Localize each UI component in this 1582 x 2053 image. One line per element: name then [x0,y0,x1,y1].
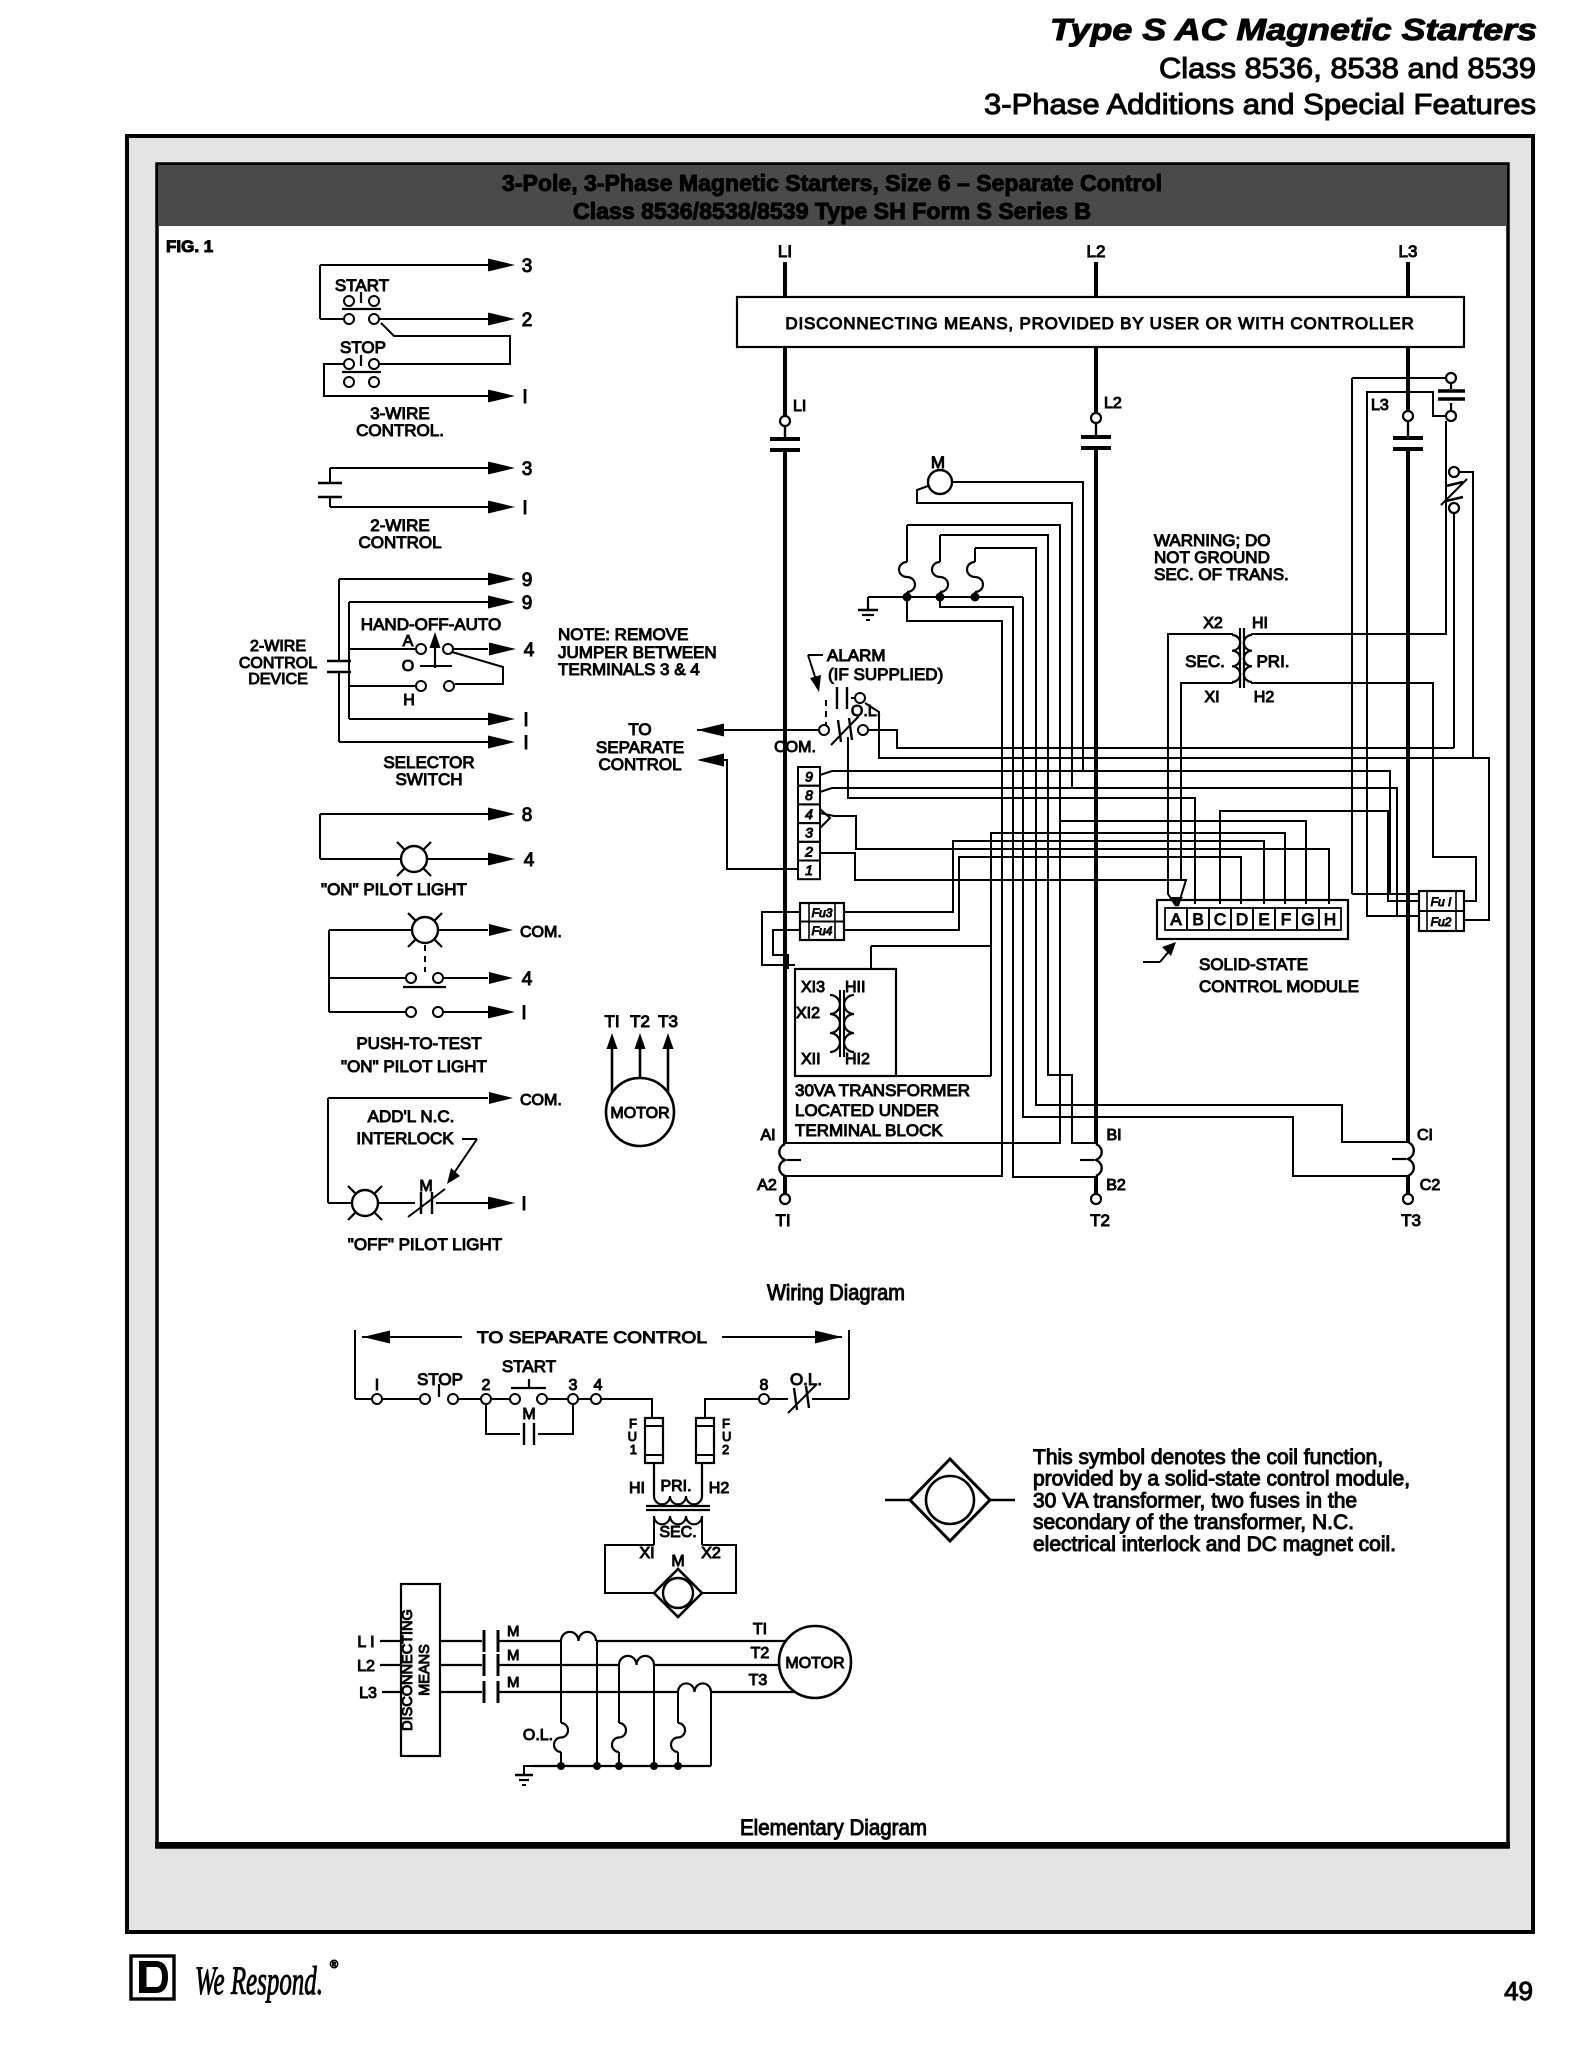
Square D logo [131,1956,174,1999]
wire M coil left lead to terminal 8 [832,486,1072,788]
wire L1 top [783,262,787,297]
svg-text:B: B [1192,910,1203,929]
overload heater leg 1b [596,1641,598,1766]
terminal L1 [780,416,790,426]
svg-text:O.L.: O.L. [523,1727,553,1744]
svg-text:HI: HI [1252,615,1268,632]
selector outer-left bus wire with 2-wire device contact [338,579,340,661]
svg-text:LOCATED UNDER: LOCATED UNDER [795,1101,939,1120]
alarm dashed actuator link [825,700,827,727]
svg-text:9: 9 [805,769,813,785]
ground symbol elementary [524,1766,533,1775]
svg-text:provided by a solid-state cont: provided by a solid-state control module… [1033,1468,1410,1491]
svg-text:HII: HII [845,979,865,996]
svg-text:TO: TO [628,720,651,739]
wire Fu3 left loop to transformer [762,912,800,965]
svg-text:1: 1 [805,862,813,878]
svg-text:DISCONNECTING: DISCONNECTING [400,1609,416,1731]
auxiliary contact near L3 (upper) [1446,373,1456,383]
terminal 2 [798,842,820,861]
wire upper contact bottom via 1367 down to Fu2 [1367,392,1446,916]
terminal 4 [798,804,820,823]
wire Fu3 right to module E [844,841,1264,912]
terminal 1 [372,1394,382,1404]
wire: left vertical [319,814,321,859]
START pushbutton [510,1394,520,1404]
elementary transformer primary coil [654,1496,702,1504]
svg-text:G: G [1301,910,1314,929]
svg-text:H2: H2 [709,1480,730,1497]
selector wire to terminal 1 (inner) [349,718,488,720]
separable connector L2 [1081,435,1111,439]
elementary control rung [355,1398,419,1400]
svg-text:L3: L3 [359,1685,377,1702]
N.C. interlock contact M [378,1202,415,1204]
wire H2 to Fu1 right [1252,682,1476,901]
elementary transformer core [646,1505,710,1507]
overload common bus [533,1765,711,1767]
STOP lower terminals row [344,377,354,387]
svg-text:TERMINALS 3 & 4: TERMINALS 3 & 4 [558,660,700,679]
svg-text:4: 4 [594,1377,603,1394]
overload heater leg 2a with OL contact [618,1665,620,1723]
solid-state module leader arrow [1143,961,1160,963]
selector: inner wire to terminal 9 [349,601,488,603]
svg-text:F: F [1281,910,1291,929]
module terminal D [1231,908,1253,930]
svg-text:Elementary Diagram: Elementary Diagram [740,1815,927,1840]
O.L. contact elementary [769,1398,788,1400]
inner white panel [157,164,1508,1847]
terminal L3 [1403,411,1413,421]
svg-text:electrical interlock and DC ma: electrical interlock and DC magnet coil. [1033,1533,1396,1556]
svg-text:M: M [507,1647,520,1664]
selector handle arrow [434,646,436,668]
terminal 8 [798,786,820,805]
pilot light ON [320,858,401,860]
svg-text:XI: XI [1204,689,1219,706]
wire net 8 extension to Fu2 left [1072,788,1397,916]
svg-text:L3: L3 [1371,397,1389,414]
wire heater3 top to pole C1 [975,548,1408,1142]
svg-text:TI: TI [753,1621,767,1638]
svg-text:ADD'L N.C.: ADD'L N.C. [368,1107,455,1126]
svg-text:4: 4 [522,969,533,990]
svg-text:I: I [521,1003,526,1024]
svg-text:PRI.: PRI. [1256,652,1289,671]
START lower terminals row [320,318,344,320]
svg-text:NOTE: REMOVE: NOTE: REMOVE [558,625,688,644]
M seal-in contact branch [486,1404,520,1434]
ptt dashed link [424,945,426,972]
wire L3 phase down to pole C [1406,449,1410,1142]
wire to COM terminal [438,929,488,931]
wire from STOP to terminal 1 [324,364,488,396]
module terminal E [1253,908,1275,930]
svg-text:L2: L2 [1087,242,1106,261]
terminal L2 [1091,413,1101,423]
3-wire control: wire to terminal 3 [320,264,488,266]
phase L2 line with M contact and heater to motor T2 [440,1664,482,1666]
svg-text:"ON" PILOT LIGHT: "ON" PILOT LIGHT [321,880,467,899]
terminal 9 [798,767,820,786]
svg-text:3-Phase Additions and Special: 3-Phase Additions and Special Features [984,89,1536,121]
svg-text:MEANS: MEANS [417,1644,433,1696]
svg-text:D: D [1236,910,1248,929]
contactor pole A [779,1144,785,1176]
svg-text:"ON" PILOT LIGHT: "ON" PILOT LIGHT [341,1057,487,1076]
svg-text:STOP: STOP [340,338,386,357]
wire 4 to fuse FU1 [601,1399,652,1418]
terminal 8 [759,1394,769,1404]
separable connector L3 [1393,436,1423,440]
DC magnet coil M (diamond symbol) [654,1569,702,1617]
svg-text:2-WIRE: 2-WIRE [250,638,306,655]
junction dots on overload bus [557,1762,565,1770]
wire Fu4 right to module D [844,857,1241,930]
dark title bar [158,165,1507,226]
fuse block Fu1/Fu2 [1419,891,1464,931]
svg-text:M: M [507,1674,520,1691]
overload heater 3 [974,548,976,562]
motor M1 [606,1078,674,1146]
svg-text:Fu4: Fu4 [812,924,833,938]
elementary transformer secondary coil [654,1516,702,1524]
svg-text:I: I [375,1377,379,1394]
svg-text:CI: CI [1417,1127,1433,1144]
svg-text:Wiring Diagram: Wiring Diagram [767,1280,905,1305]
svg-text:T3: T3 [1401,1211,1421,1230]
svg-text:L I: L I [357,1634,374,1651]
wire terminal 2 to net 880 (module A) [820,853,1186,906]
svg-text:CONTROL.: CONTROL. [356,421,444,440]
svg-text:I: I [522,387,527,408]
separable connector L1 [770,437,800,441]
svg-text:E: E [1258,910,1269,929]
module terminal C [1209,908,1231,930]
svg-text:ALARM: ALARM [827,646,886,665]
svg-text:2: 2 [722,1442,729,1457]
svg-text:4: 4 [524,640,535,661]
fuse FU1 [645,1418,663,1463]
svg-text:COM.: COM. [520,924,562,941]
wire L3 to terminal [1406,347,1410,411]
wire heater1 top to pole A1 [785,525,1060,1143]
svg-text:CONTROL: CONTROL [598,755,681,774]
svg-text:"OFF" PILOT LIGHT: "OFF" PILOT LIGHT [348,1235,502,1254]
svg-text:L3: L3 [1399,242,1418,261]
pilot light OFF [328,1202,352,1204]
svg-text:Class 8536, 8538 and 8539: Class 8536, 8538 and 8539 [1159,53,1536,85]
svg-text:Fu I: Fu I [1431,895,1452,909]
wire start to 3 [491,1398,510,1400]
jumper between terminals 3 and 4 [820,809,830,828]
transformer secondary coil SEC [1232,635,1240,682]
svg-text:49: 49 [1504,1976,1533,2006]
wire Fu4 left loop to transformer [773,930,800,969]
svg-text:TERMINAL BLOCK: TERMINAL BLOCK [795,1121,943,1140]
wire net 9 extension to Fu1 left [1083,771,1390,894]
wire heater3 bottom to pole C2 [974,592,976,597]
svg-text:T2: T2 [630,1012,650,1031]
svg-text:MOTOR: MOTOR [785,1655,844,1672]
svg-text:LI: LI [778,242,792,261]
ptt left bus wire [328,930,330,1012]
svg-text:8: 8 [522,805,533,826]
wire module C to Fu1-left net via 1388 [1220,811,1419,904]
30VA transformer bottom-right wire [896,1075,991,1077]
svg-text:XI2: XI2 [796,1005,820,1022]
svg-text:3: 3 [805,825,813,841]
svg-text:TI: TI [775,1211,790,1230]
selector wire to terminal 1 (outer) [339,741,488,743]
wire X2 to module A [1168,634,1232,906]
wire heater2 bottom to pole B2 [940,592,1096,1177]
wire: seal branch from start to stop [379,323,510,364]
wire terminal 4 to module H [820,813,1329,904]
selector moving contact diagonal to row H [452,652,503,684]
motor lead terminal T3 [1406,1176,1410,1194]
junction dots on ground bus [903,593,912,602]
30VA transformer enclosure [795,969,896,1076]
svg-text:T3: T3 [749,1672,768,1689]
svg-text:DEVICE: DEVICE [248,671,308,688]
svg-text:Class 8536/8538/8539 Type SH F: Class 8536/8538/8539 Type SH Form S Seri… [573,198,1091,224]
30VA transformer secondary coil [830,995,840,1052]
svg-text:INTERLOCK: INTERLOCK [356,1129,454,1148]
svg-text:I: I [523,733,528,754]
ptt contact row 4 [329,977,405,979]
svg-text:1: 1 [630,1442,637,1457]
page outer border frame [127,136,1533,1932]
wire L1 to terminal [783,347,787,416]
alarm contact (if supplied) [836,687,838,709]
contactor coil M [928,470,952,494]
svg-text:2: 2 [804,843,813,859]
wire module B to contact cluster [848,737,1195,904]
wire L1 phase down to pole A [783,450,787,1144]
wire: left vertical of start branch [319,265,321,319]
wire to terminal 2 [379,318,488,320]
off-pilot: wire to COM terminal [328,1097,488,1099]
overload heater leg 3a with OL contact [677,1692,679,1723]
svg-text:XII: XII [801,1051,821,1068]
svg-text:PRI.: PRI. [660,1478,691,1495]
wire heater1 bottom to pole A2 [785,592,1002,1176]
wire FU1 to primary H1 [653,1463,655,1489]
motor lead arrows [611,1046,614,1096]
wire module G to net 1060 [1060,821,1306,904]
selector contact row H [349,685,415,687]
STOP pushbutton [420,1394,430,1404]
selector switch: outer wire to terminal 9 [339,578,488,580]
wire upper contact top to vertical 1352 [1352,377,1446,379]
svg-text:A2: A2 [757,1177,777,1194]
svg-text:TO SEPARATE CONTROL: TO SEPARATE CONTROL [477,1328,707,1347]
svg-text:O: O [402,658,414,675]
2-wire contact symbol [329,468,331,483]
svg-text:COM.: COM. [774,739,816,756]
svg-text:T3: T3 [658,1012,678,1031]
svg-text:CONTROL: CONTROL [358,533,441,552]
2-wire control: wire to terminal 3 [330,467,488,469]
svg-text:®: ® [330,1959,338,1971]
svg-text:4: 4 [524,850,535,871]
svg-text:A: A [1170,910,1182,929]
fuse FU2 [696,1418,714,1463]
wire stop to 2 [458,1398,481,1400]
wire heater2 top to pole B1 [940,535,1096,1143]
overload heater 1 [906,525,908,562]
terminal 2 [481,1394,491,1404]
svg-text:SOLID-STATE: SOLID-STATE [1199,955,1308,974]
off-pilot left bus wire [327,1098,329,1203]
phase L1 line with M contact and heater to motor T1 [440,1640,482,1642]
O.L. contact [819,725,829,735]
svg-text:HI2: HI2 [845,1051,870,1068]
module terminal H [1319,908,1341,930]
wire M coil right lead to terminal 9 [832,482,1083,771]
svg-text:PUSH-TO-TEST: PUSH-TO-TEST [356,1034,481,1053]
svg-text:H: H [403,692,415,709]
svg-text:8: 8 [805,787,813,803]
svg-text:DISCONNECTING MEANS, PROVIDED: DISCONNECTING MEANS, PROVIDED BY USER OR… [785,314,1414,333]
motor M2 (elementary) [779,1626,851,1698]
right boundary wire [848,1330,850,1399]
transformer core [1239,628,1241,688]
svg-text:Fu3: Fu3 [812,906,833,920]
module terminal F [1275,908,1297,930]
svg-text:3: 3 [522,256,533,277]
wire L2 top [1094,262,1098,297]
terminal 4 [591,1394,601,1404]
ptt pilot light [329,929,412,931]
svg-text:TI: TI [604,1012,619,1031]
module A entry arrowhead [1171,897,1183,907]
disconnecting means box (elementary) [401,1584,440,1756]
svg-text:4: 4 [805,806,813,822]
svg-text:2: 2 [522,310,533,331]
svg-text:We Respond.: We Respond. [195,1958,323,2003]
svg-text:AI: AI [760,1127,775,1144]
overload heater 2 [939,535,941,562]
svg-text:secondary of the transformer,: secondary of the transformer, N.C. [1033,1511,1354,1534]
motor lead terminal T1 [783,1176,787,1194]
svg-text:B2: B2 [1106,1177,1126,1194]
terminal 3 [568,1394,578,1404]
module terminal A [1165,908,1187,930]
wire O.L. to right interlock bottom [868,730,1454,748]
contactor pole C [1408,1142,1414,1176]
wire L2 phase down to pole B [1094,448,1098,1144]
overload heater leg 1a with OL contact [560,1641,562,1723]
svg-text:HI: HI [629,1480,645,1497]
svg-text:XI3: XI3 [801,979,825,996]
svg-text:9: 9 [522,570,533,591]
wire secondary X1 side [653,1516,655,1545]
wire to terminal 1 [436,1202,488,1204]
svg-text:XI: XI [639,1545,654,1562]
overload heater leg 3b [710,1692,712,1766]
svg-text:2: 2 [482,1377,491,1394]
phase L3 line with M contact and heater to motor T3 [440,1691,482,1693]
left boundary wire [354,1330,356,1399]
svg-text:SEC. OF TRANS.: SEC. OF TRANS. [1154,565,1289,584]
svg-text:M: M [522,1406,535,1423]
svg-text:COM.: COM. [520,1092,562,1109]
svg-text:3: 3 [522,459,533,480]
wire FU2 to primary H2 [701,1463,703,1489]
svg-text:L2: L2 [357,1658,375,1675]
selector contact row A [349,648,415,650]
svg-text:C: C [1214,910,1226,929]
svg-text:M: M [507,1623,520,1640]
svg-text:This symbol denotes the coil f: This symbol denotes the coil function, [1033,1446,1383,1469]
svg-text:LI: LI [793,398,806,415]
terminal 1 [798,861,820,880]
wire from COM arrow to O.L. contact [697,729,819,731]
wire L3 top [1406,262,1410,297]
legend coil symbol (diamond) [885,1499,911,1501]
ground bus under heaters [868,596,1023,598]
secondary loop to coil [605,1545,656,1593]
wire to terminal 1 [330,506,488,508]
svg-text:Fu2: Fu2 [1431,915,1452,929]
svg-text:X2: X2 [701,1545,721,1562]
phase stubs into disconnect [380,1640,401,1642]
svg-text:SWITCH: SWITCH [395,770,462,789]
svg-text:I: I [522,498,527,519]
svg-text:H: H [1324,910,1336,929]
30VA transformer primary coil [844,995,854,1052]
wire lower contact top jog down to alarm net run [1459,472,1473,758]
30VA transformer top stub to F net [870,946,872,969]
N.C. electrical interlock contact (lower right) [1449,467,1459,477]
svg-text:T2: T2 [751,1645,770,1662]
fuse block Fu3/Fu4 [800,903,844,940]
svg-text:X2: X2 [1203,615,1223,632]
svg-text:CONTROL: CONTROL [239,655,317,672]
svg-text:3: 3 [569,1377,578,1394]
wire to terminal 4 [427,858,488,860]
svg-text:START: START [502,1357,556,1376]
pushbutton START contact (upper row with bar and plunger) [344,296,354,306]
svg-text:9: 9 [522,593,533,614]
wire FU2 to 8 [705,1399,759,1418]
selector inner-left bus wire [348,602,350,719]
wire alarm contact to Fu2 right via 1489 [865,703,1489,920]
on-pilot: wire to terminal 8 [320,813,488,815]
svg-text:BI: BI [1106,1127,1121,1144]
terminal 3 [798,823,820,842]
svg-text:30 VA transformer, two fuses i: 30 VA transformer, two fuses in the [1033,1489,1357,1512]
module terminal G [1297,908,1319,930]
svg-text:A: A [403,633,414,650]
disconnecting means box [737,297,1464,347]
svg-text:MOTOR: MOTOR [610,1105,669,1122]
svg-text:3-Pole, 3-Phase Magnetic Start: 3-Pole, 3-Phase Magnetic Starters, Size … [502,170,1162,196]
wire X1 to net at 1181 [1181,682,1232,880]
svg-text:C2: C2 [1420,1177,1441,1194]
wire H1 to interlock [1252,421,1446,635]
wire secondary X2 side [701,1516,703,1545]
svg-text:L2: L2 [1104,395,1122,412]
svg-text:H2: H2 [1254,689,1275,706]
wire terminal 1 to separate control arrow [700,760,798,869]
motor lead terminal T2 [1094,1176,1098,1194]
svg-text:8: 8 [760,1377,769,1394]
to-separate-control span with arrows [362,1336,462,1338]
